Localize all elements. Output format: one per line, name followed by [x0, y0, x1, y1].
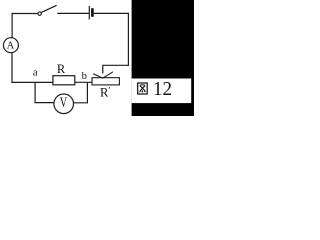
wire switch to battery	[57, 12, 89, 14]
scan artifact black block	[132, 0, 194, 116]
svg-text:a: a	[33, 67, 38, 78]
wire voltmeter left branch	[35, 83, 54, 103]
figure caption white box	[132, 79, 192, 104]
wire right vertical	[127, 13, 129, 65]
wire left vertical upper	[11, 13, 13, 38]
switch S contact circle	[38, 12, 41, 15]
wire battery to top-right corner	[94, 12, 129, 14]
svg-text:12: 12	[153, 79, 172, 100]
svg-text:b: b	[82, 71, 87, 82]
wire jog to rheostat wiper	[103, 64, 129, 66]
rheostat R' wiper shaft	[102, 65, 104, 74]
wire middle horizontal left	[11, 81, 53, 83]
wire left vertical lower	[11, 53, 13, 84]
rheostat R' body	[92, 78, 119, 85]
wire R to rheostat	[75, 81, 93, 83]
rheostat R' arrowhead left arm	[93, 74, 103, 78]
switch S blade	[41, 5, 56, 12]
svg-text:R′: R′	[100, 85, 110, 99]
ammeter A	[3, 38, 18, 53]
svg-text:V: V	[60, 95, 67, 111]
voltmeter V	[54, 94, 74, 114]
label 图 (drawn glyph)	[138, 83, 148, 94]
wire top-left horizontal	[12, 13, 38, 15]
resistor R body	[53, 76, 75, 85]
rheostat R' arrowhead right arm	[103, 72, 113, 78]
wire voltmeter right branch	[74, 83, 88, 103]
battery positive plate	[88, 6, 90, 20]
battery negative plate	[91, 8, 94, 17]
svg-text:R: R	[57, 62, 66, 76]
svg-text:A: A	[7, 41, 15, 52]
